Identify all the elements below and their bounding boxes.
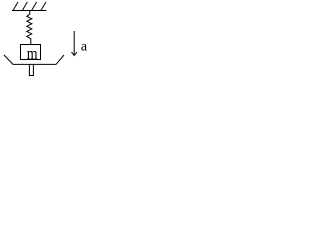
svg-text:m: m [27,44,38,63]
ceiling hatch 3 [32,2,37,11]
mass box [21,45,41,60]
spring [27,11,32,45]
scale pedestal [29,65,33,76]
svg-text:a: a [81,40,88,55]
acceleration arrow head [72,52,77,55]
ceiling line [12,10,47,12]
ceiling hatch 1 [13,2,18,11]
ceiling hatch 2 [22,2,27,11]
background [0,0,92,80]
ceiling hatch 4 [41,2,46,11]
acceleration arrow shaft [73,31,75,55]
scale pan [4,55,64,64]
